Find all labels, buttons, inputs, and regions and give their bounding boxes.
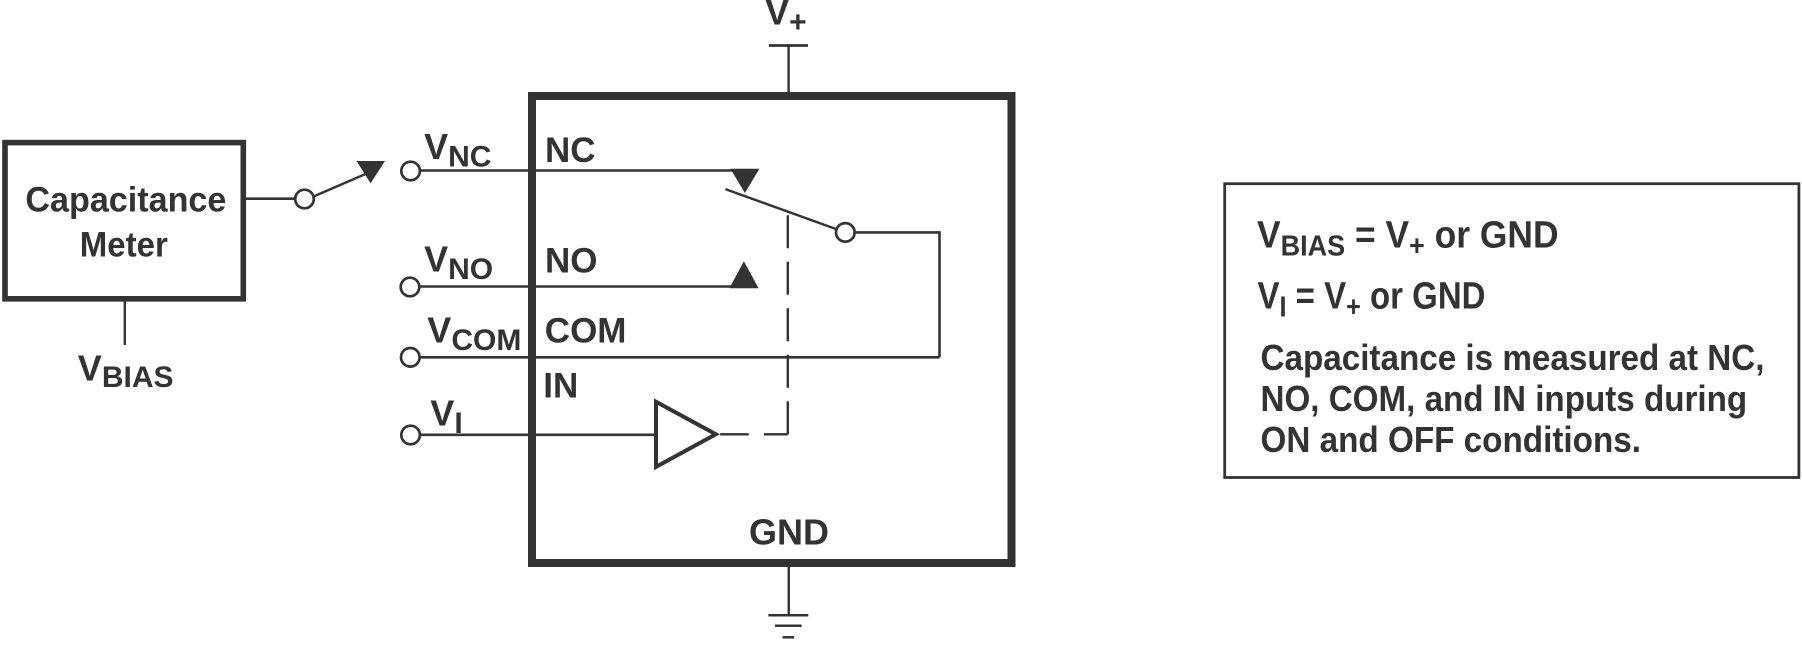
V+ rail wire to box	[787, 46, 789, 96]
terminal VCOM circle	[401, 348, 420, 367]
label VI	[430, 393, 462, 441]
svg-text:NC: NC	[545, 131, 596, 170]
wire throw to COM net	[856, 232, 940, 357]
GND label	[749, 511, 829, 552]
svg-text:VCOM: VCOM	[427, 310, 521, 358]
terminal VNC circle	[401, 162, 420, 181]
note paragraph	[1261, 337, 1765, 460]
DUT box	[532, 96, 1012, 563]
label VBIAS	[78, 347, 174, 394]
wire meter to VBIAS stub	[124, 300, 126, 345]
wire VCOM to COM pin	[421, 356, 940, 359]
buffer amplifier	[656, 402, 716, 467]
ground stub wire	[788, 563, 790, 615]
label VCOM	[427, 310, 521, 358]
svg-text:COM: COM	[545, 312, 627, 351]
ground symbol	[768, 614, 808, 617]
switch arrow NC (internal)	[730, 169, 759, 193]
NC pin label	[545, 131, 596, 170]
wire VNC to NC pin	[421, 169, 745, 172]
label VNO	[424, 238, 493, 286]
svg-text:VNO: VNO	[424, 238, 493, 286]
svg-text:VNC: VNC	[424, 126, 491, 174]
svg-text:Meter: Meter	[80, 226, 168, 265]
switch throw circle (internal)	[836, 223, 855, 242]
svg-text:VI: VI	[430, 393, 462, 441]
dashed net buffer output to switch lever	[720, 433, 788, 435]
svg-text:Capacitance: Capacitance	[25, 181, 226, 220]
wire VNO to NO pin	[420, 285, 744, 288]
V+ label	[765, 0, 807, 39]
svg-text:NO: NO	[545, 242, 598, 281]
svg-text:IN: IN	[543, 367, 578, 406]
svg-text:V+: V+	[765, 0, 807, 39]
svg-text:Capacitance is measured at NC,: Capacitance is measured at NC,	[1261, 337, 1765, 378]
IN pin label	[543, 367, 578, 406]
svg-text:GND: GND	[749, 511, 829, 552]
V+ rail bar	[769, 44, 808, 47]
svg-text:VI = V+ or GND: VI = V+ or GND	[1258, 276, 1486, 324]
capacitance meter label	[25, 181, 226, 265]
svg-text:NO, COM, and IN inputs during: NO, COM, and IN inputs during	[1261, 378, 1748, 419]
switch arrow NO (internal)	[729, 261, 758, 288]
label VNC	[424, 126, 491, 174]
svg-text:ON and OFF conditions.: ON and OFF conditions.	[1261, 419, 1642, 460]
terminal VNO circle	[401, 278, 420, 297]
wire VI to buffer	[421, 433, 655, 436]
note box	[1225, 184, 1799, 478]
svg-text:VBIAS: VBIAS	[78, 347, 174, 394]
switch lever (external)	[314, 173, 370, 197]
COM pin label	[545, 312, 627, 351]
terminal VI circle	[401, 426, 420, 445]
NO pin label	[545, 242, 598, 281]
note line 2	[1258, 276, 1486, 324]
switch pole circle	[295, 190, 314, 209]
capacitance meter box	[5, 143, 243, 299]
switch lever (internal)	[725, 189, 838, 230]
switch arrow (external)	[357, 161, 386, 183]
wire meter to switch pole	[246, 197, 296, 200]
note line 1	[1257, 215, 1559, 263]
